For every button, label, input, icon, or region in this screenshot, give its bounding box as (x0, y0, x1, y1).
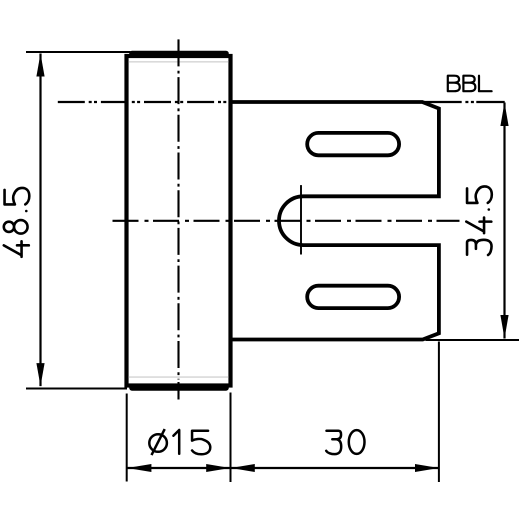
dim 34.5 arrow down (500, 315, 508, 339)
dim 48.5 arrow down (36, 363, 44, 386)
dim 30 dimension line (231, 467, 439, 469)
dim 34.5 bottom extension line (426, 339, 520, 341)
barrel vertical centerline (dashed part) (177, 39, 179, 379)
dim 48.5 arrow up (36, 54, 44, 77)
diameter symbol (149, 434, 167, 452)
dim 34.5 label (466, 186, 492, 255)
dim 15 arrow right (206, 464, 230, 472)
dim 48.5 top extension line (26, 51, 131, 53)
upper screw slot (307, 133, 399, 155)
lower screw slot (307, 286, 399, 308)
dim 30 arrow right (415, 464, 439, 472)
dim 48.5 label (4, 188, 30, 257)
cutout arc center mark (300, 185, 302, 254)
BBL reference line (right portion, solid then dot dot dash) (424, 101, 505, 103)
barrel bottom seam line (faint) (129, 376, 229, 378)
hinge barrel outline (127, 56, 231, 386)
barrel vertical centerline (solid lower end) (177, 382, 179, 400)
dim 15 left extension line (126, 394, 128, 482)
dim 30 arrow left (231, 464, 255, 472)
barrel top seam line (faint) (129, 61, 229, 63)
dim 30 label (326, 430, 364, 454)
main horizontal centerline (dash-dot) (113, 220, 460, 222)
barrel top cap (132, 51, 226, 57)
dim 48.5 bottom extension line (26, 388, 127, 390)
dim 48.5 dimension line (39, 54, 41, 387)
dim 15 label (173, 430, 210, 454)
dim 15 arrow left (127, 464, 151, 472)
dim 15 dimension line (127, 467, 230, 469)
BBL label (448, 76, 492, 92)
barrel bottom cap (132, 385, 226, 391)
dim 30 right extension line (438, 342, 440, 483)
dim 34.5 arrow up (500, 103, 508, 127)
dim 34.5 dimension line (503, 103, 505, 339)
dim 15 / 30 shared extension line (230, 393, 232, 483)
mounting plate outline with right-open slot cutout and chamfered corners (231, 102, 439, 340)
BBL reference line (left of plate, dash-dot-dot) (58, 101, 231, 103)
